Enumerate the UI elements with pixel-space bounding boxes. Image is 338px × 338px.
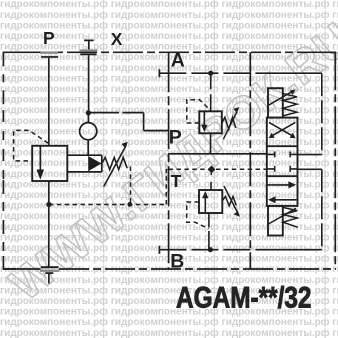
wire orifice to pilot poppet	[87, 140, 89, 156]
svg-text:T: T	[171, 171, 182, 191]
port P marker	[41, 52, 59, 58]
border section divider right	[249, 52, 251, 269]
port B end cap	[158, 246, 160, 254]
junction dot A	[208, 71, 213, 76]
main valve body square	[32, 146, 67, 181]
border outer manifold box right	[334, 52, 336, 269]
port T marker	[40, 266, 60, 283]
junction dot X	[86, 110, 91, 115]
junction dot drain left	[46, 202, 51, 207]
relief valve 2 arrow	[202, 191, 208, 212]
relief valve 1 adjust arrow	[223, 112, 237, 140]
svg-text:A: A	[171, 50, 185, 72]
directional valve center blocked ports	[267, 152, 298, 172]
relief valve 1 pilot dashed	[187, 100, 211, 123]
pilot line main valve dashed	[14, 130, 49, 161]
solenoid bottom box	[268, 206, 283, 236]
border section divider left	[168, 52, 170, 269]
channel to pilot poppet	[67, 155, 102, 172]
border outer manifold box left	[2, 52, 4, 110]
wire X branch to right section	[88, 113, 168, 131]
arrow adjustable main	[104, 142, 128, 187]
border outer manifold box top	[3, 51, 55, 53]
relief valve 2 outlet to B	[208, 213, 210, 250]
relief valve 1 spring	[222, 117, 236, 129]
solenoid top box	[268, 88, 283, 117]
svg-text:гидрокомпоненты.рф гидрокомпон: гидрокомпоненты.рф гидрокомпоненты.рф ги…	[0, 327, 338, 338]
drain line spring dashed	[130, 167, 132, 205]
spring main relief	[102, 157, 127, 169]
directional valve crossed arrows	[269, 122, 296, 138]
wire B to valve T row	[298, 168, 322, 170]
directional valve body	[267, 118, 298, 206]
wire P inlet vertical	[48, 58, 50, 146]
directional valve bottom arrows	[268, 181, 297, 203]
relief valve 2 adjust arrow	[224, 186, 238, 213]
svg-text:гидрокомпоненты.рф гидрокомпон: гидрокомпоненты.рф гидрокомпоненты.рф ги…	[0, 0, 338, 10]
svg-text:гидрокомпоненты.рф гидрокомпон: гидрокомпоненты.рф гидрокомпоненты.рф ги…	[0, 316, 338, 328]
svg-text:P: P	[169, 127, 182, 149]
port A end cap	[158, 69, 160, 77]
svg-text:AGAM-**/32: AGAM-**/32	[176, 281, 312, 314]
wire A down right side	[321, 73, 323, 154]
wire X junction to orifice	[87, 113, 89, 123]
wire P line section	[169, 153, 267, 155]
relief valve 1 outlet	[210, 133, 212, 154]
port X marker	[79, 40, 97, 55]
relief valve 2 spring	[222, 196, 236, 205]
relief valve 1 body	[199, 111, 222, 133]
wire X vertical to junction	[88, 55, 90, 113]
wire A to valve P row	[298, 154, 322, 156]
relief valve 1 arrow	[201, 112, 207, 132]
orifice circle	[80, 123, 97, 140]
junction dot drain spring	[127, 202, 132, 207]
border outer manifold box bottom	[3, 268, 41, 270]
main valve arrow	[37, 146, 45, 180]
junction dot B	[208, 247, 213, 252]
wire T line section dashed	[169, 168, 267, 170]
drain gallery dashed vertical right	[166, 170, 168, 205]
wire A line dashed	[159, 72, 267, 74]
relief valve 2 pilot dashed	[187, 202, 209, 229]
solenoid top arrow	[268, 91, 293, 105]
junction dot T diamond	[208, 165, 216, 173]
solenoid bottom spring	[283, 207, 298, 227]
relief valve 2 body	[199, 190, 222, 213]
drain gallery dashed horizontal	[49, 204, 166, 206]
relief valve 2 inlet from T	[210, 172, 212, 190]
wire main valve outlet	[48, 181, 50, 267]
svg-text:B: B	[170, 250, 184, 272]
pilot poppet triangle	[88, 156, 101, 171]
solenoid bottom arrow	[268, 208, 296, 224]
relief valve 1 inlet	[210, 76, 212, 112]
wire B line dashed	[159, 249, 267, 251]
svg-text:X: X	[111, 29, 123, 49]
svg-text:P: P	[43, 28, 55, 48]
solenoid top spring	[283, 94, 297, 116]
svg-text:гидрокомпоненты.рф гидрокомпон: гидрокомпоненты.рф гидрокомпоненты.рф ги…	[0, 9, 338, 21]
wire B up right side	[321, 169, 323, 249]
